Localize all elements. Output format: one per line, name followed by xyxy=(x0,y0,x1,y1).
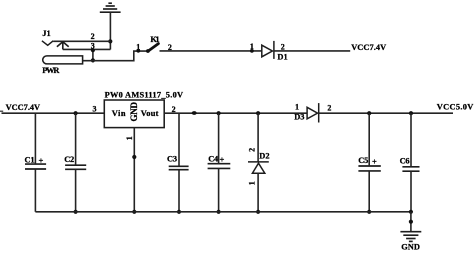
svg-text:C4: C4 xyxy=(208,155,219,164)
switch K1 lever xyxy=(148,44,159,52)
wire: D3 to VCC5.0V port xyxy=(319,112,453,114)
wire: D2 top lead xyxy=(257,113,259,162)
connector J1 switch arrow xyxy=(57,42,69,50)
svg-text:PW0 AMS1117_5.0V: PW0 AMS1117_5.0V xyxy=(105,90,184,99)
ground (top earth symbol) xyxy=(100,3,121,12)
wire: D2 bottom lead xyxy=(257,173,259,212)
capacitor C4 xyxy=(208,164,231,169)
junction: C5 bottom xyxy=(367,210,371,214)
junction: D2 top xyxy=(256,111,260,115)
wire: C3 bottom lead xyxy=(178,170,180,212)
wire: C4 bottom lead xyxy=(218,168,220,211)
svg-text:2: 2 xyxy=(281,42,285,51)
junction: stray dot on Vout rail xyxy=(192,111,197,115)
svg-text:2: 2 xyxy=(327,103,331,112)
ground GND earth symbol xyxy=(400,232,421,242)
capacitor C2 xyxy=(65,165,86,169)
diode D3 cathode bar xyxy=(318,103,320,122)
wire: C5 bottom lead xyxy=(368,171,370,212)
wire: regulator GND pin down to ground rail xyxy=(133,128,135,212)
wire: switch K1 to diode D1 xyxy=(160,50,262,52)
junction: C3 bottom xyxy=(177,210,181,214)
junction: C5 top xyxy=(367,111,371,115)
wire: ground rail xyxy=(35,211,411,213)
svg-text:D3: D3 xyxy=(294,113,304,122)
wire: ground rail down to earth symbol xyxy=(410,212,412,231)
capacitor C5 xyxy=(358,166,380,171)
wire: C6 top lead xyxy=(410,113,412,167)
wire: jack pin 3 to ground stem xyxy=(63,48,111,50)
svg-text:J1: J1 xyxy=(42,29,50,38)
wire: earth stem down to pin lines xyxy=(109,12,111,49)
svg-text:1: 1 xyxy=(125,136,134,140)
svg-text:D2: D2 xyxy=(259,151,269,160)
junction: D1 pin 1 xyxy=(250,49,254,53)
svg-text:Vin: Vin xyxy=(112,109,126,118)
junction: GND pin wire dot xyxy=(132,155,136,159)
svg-text:2: 2 xyxy=(91,32,95,41)
wire: C1 bottom lead to ground rail xyxy=(34,169,36,212)
junction: C4 bottom xyxy=(217,210,221,214)
wire: pin3 line to barrel line xyxy=(92,49,94,60)
connector J1 tip chevron xyxy=(42,41,53,46)
diode D1 cathode bar xyxy=(273,41,275,59)
svg-text:3: 3 xyxy=(93,105,97,114)
diode D1 triangle xyxy=(262,45,273,57)
wire: C5 top lead xyxy=(368,113,370,166)
svg-text:C3: C3 xyxy=(167,155,177,164)
svg-text:K1: K1 xyxy=(150,35,159,44)
junction: D2 bottom xyxy=(256,210,260,214)
connector J1 barrel (sleeve) xyxy=(43,56,83,64)
wire: C3 top lead xyxy=(178,113,180,166)
wire: barrel to switch K1 xyxy=(83,51,148,61)
svg-text:VCC7.4V: VCC7.4V xyxy=(6,103,41,112)
svg-text:1: 1 xyxy=(247,181,256,185)
junction: C2 top xyxy=(74,111,78,115)
svg-text:1: 1 xyxy=(295,103,299,112)
zener diode D2 cathode bar xyxy=(248,161,269,163)
svg-text:GND: GND xyxy=(129,102,139,122)
svg-text:C6: C6 xyxy=(400,156,410,165)
junction: K1 pin 1 xyxy=(136,49,140,53)
svg-text:C2: C2 xyxy=(64,155,74,164)
junction: C4 top xyxy=(217,111,221,115)
svg-text:D1: D1 xyxy=(277,53,287,62)
wire: C6 bottom lead xyxy=(410,171,412,212)
junction: pin2 line meets ground stem xyxy=(108,39,112,43)
svg-text:C1: C1 xyxy=(25,156,35,165)
capacitor C3 xyxy=(169,166,189,169)
svg-text:+: + xyxy=(372,156,377,166)
svg-text:2: 2 xyxy=(247,148,256,152)
wire: C1 top lead xyxy=(34,113,36,164)
svg-text:PWR: PWR xyxy=(42,66,60,75)
wire: jack pin 2 to ground stem xyxy=(53,40,110,42)
diode D3 triangle xyxy=(307,107,317,119)
junction: C2 bottom xyxy=(74,210,78,214)
junction: dot on earth drop xyxy=(409,220,413,224)
wire: C2 bottom lead xyxy=(75,169,77,212)
svg-text:GND: GND xyxy=(401,242,420,251)
wire: VCC7.4V rail to regulator Vin xyxy=(2,112,105,114)
zener diode D2 triangle xyxy=(252,163,264,173)
junction: ground rail at GND drop xyxy=(409,210,413,214)
wire: VCC7.4V port stub xyxy=(0,110,3,112)
svg-text:VCC7.4V: VCC7.4V xyxy=(351,43,386,52)
svg-text:Vout: Vout xyxy=(141,109,159,118)
svg-text:+: + xyxy=(219,154,224,164)
wire: regulator Vout rail to D3 xyxy=(164,112,307,114)
svg-text:VCC5.0V: VCC5.0V xyxy=(437,103,474,112)
wire: C4 top lead xyxy=(218,113,220,164)
capacitor C1 xyxy=(25,164,46,169)
junction: pin3 line / vertical xyxy=(91,48,95,52)
junction: barrel line / vertical xyxy=(91,58,95,62)
junction: GND pin meets ground rail xyxy=(132,210,136,214)
capacitor C6 xyxy=(402,167,419,171)
wire: C2 top lead xyxy=(75,113,77,165)
switch K1 contact xyxy=(146,49,150,53)
junction: C6 top xyxy=(409,111,413,115)
regulator U1 body xyxy=(104,100,164,128)
wire: diode D1 to VCC7.4V port xyxy=(274,50,350,52)
svg-text:C5: C5 xyxy=(358,156,368,165)
